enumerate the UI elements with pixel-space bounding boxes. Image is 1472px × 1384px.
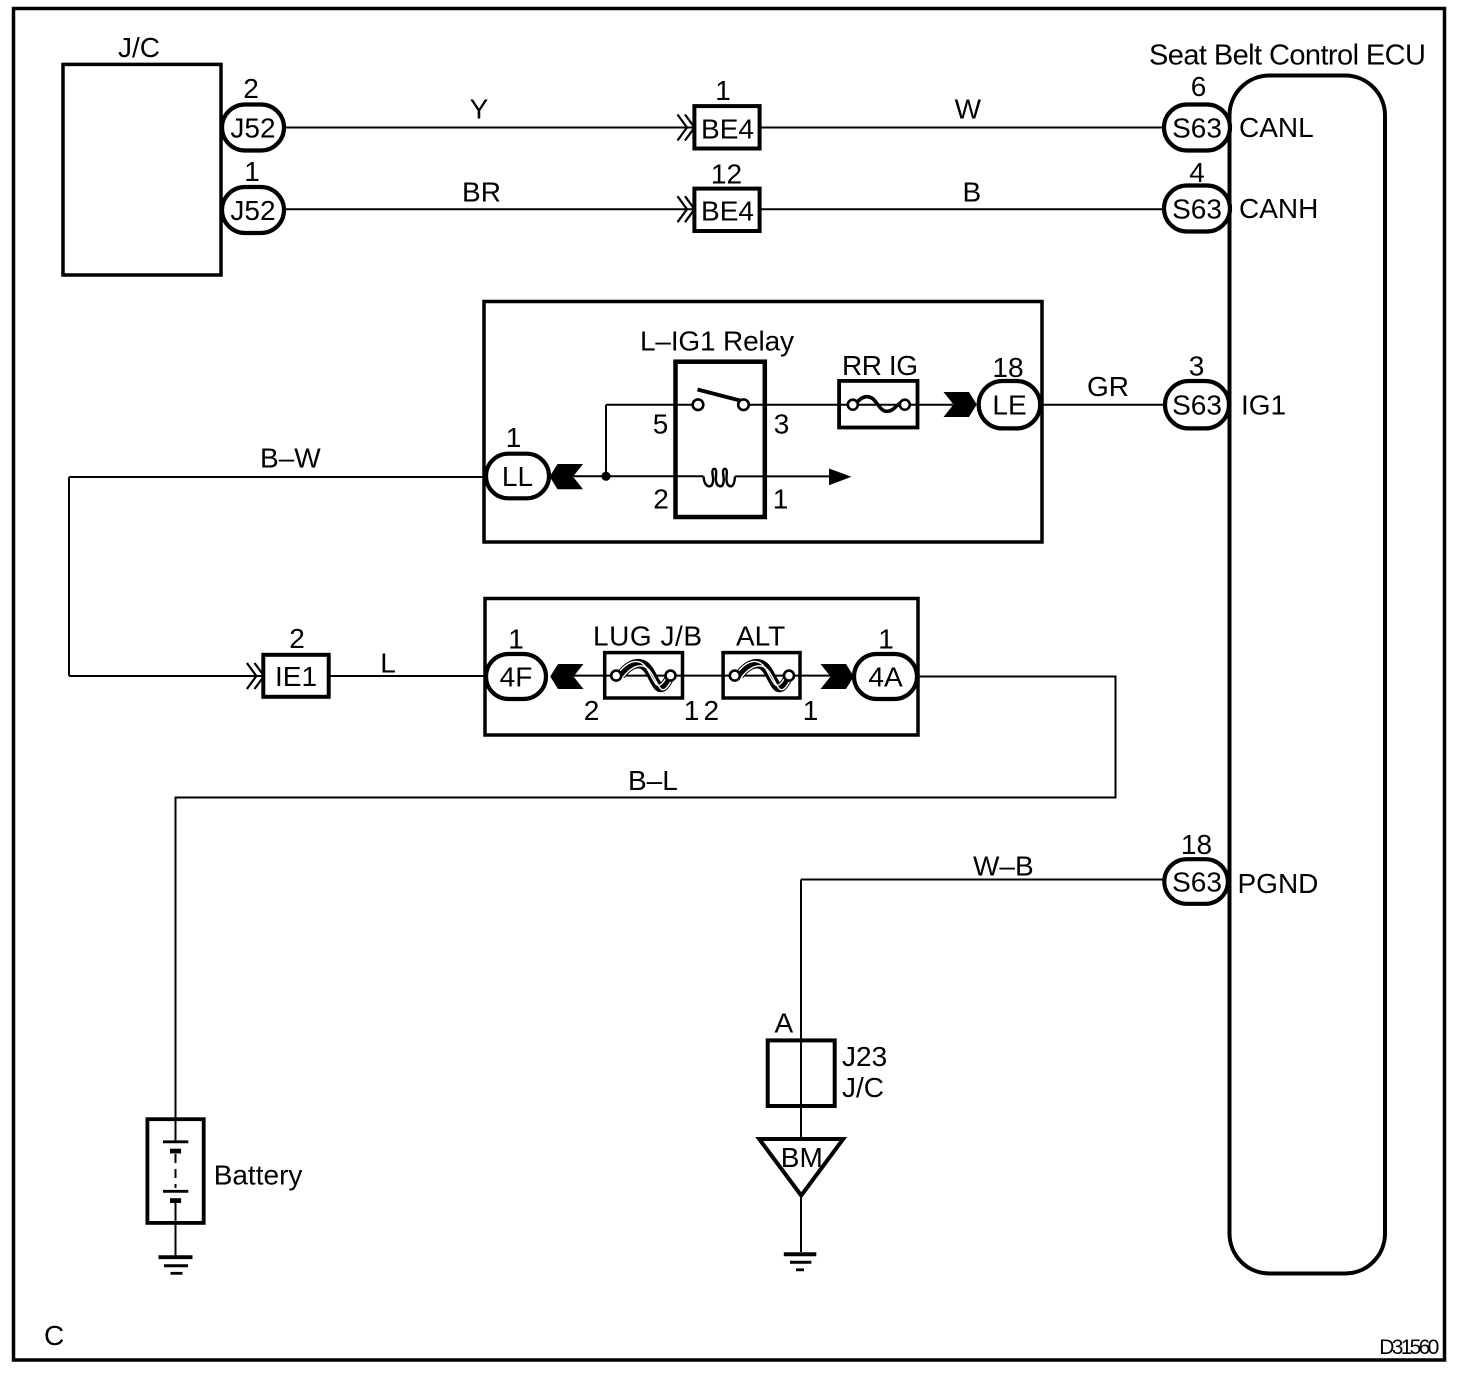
svg-text:IE1: IE1 [275,661,317,692]
svg-text:J/C: J/C [118,32,160,63]
svg-text:BM: BM [781,1142,823,1173]
svg-text:3: 3 [1189,351,1205,382]
svg-text:CANH: CANH [1239,193,1318,224]
svg-text:5: 5 [653,409,669,440]
svg-text:4F: 4F [500,662,533,693]
svg-text:4A: 4A [868,662,903,693]
svg-text:3: 3 [774,409,790,440]
svg-text:CANL: CANL [1239,112,1314,143]
svg-text:S63: S63 [1172,194,1222,225]
svg-text:J52: J52 [230,195,275,226]
svg-text:1: 1 [684,695,700,726]
svg-text:D31560: D31560 [1379,1336,1439,1359]
svg-text:Seat Belt Control ECU: Seat Belt Control ECU [1149,40,1426,72]
svg-text:6: 6 [1191,71,1207,102]
svg-text:18: 18 [992,352,1023,383]
svg-text:C: C [44,1320,64,1351]
svg-text:1: 1 [773,484,789,515]
svg-text:PGND: PGND [1238,868,1319,899]
svg-text:1: 1 [878,624,894,655]
svg-text:LUG J/B: LUG J/B [593,621,702,652]
svg-text:B–L: B–L [628,765,678,796]
svg-text:L: L [380,648,396,679]
svg-text:J52: J52 [230,113,275,144]
svg-text:S63: S63 [1172,390,1222,421]
svg-text:W–B: W–B [973,851,1034,882]
svg-text:IG1: IG1 [1241,390,1286,421]
svg-text:RR IG: RR IG [842,350,918,381]
svg-text:ALT: ALT [736,621,785,652]
svg-text:GR: GR [1087,371,1129,402]
svg-text:A: A [774,1008,793,1039]
svg-text:S63: S63 [1172,113,1222,144]
svg-text:18: 18 [1181,829,1212,860]
svg-text:W: W [955,94,982,125]
svg-text:S63: S63 [1172,867,1222,898]
svg-text:1: 1 [506,422,522,453]
svg-text:2: 2 [653,484,669,515]
svg-text:2: 2 [704,695,720,726]
svg-text:B: B [963,176,982,207]
svg-text:1: 1 [244,156,260,187]
svg-text:BE4: BE4 [701,114,754,145]
svg-text:J23: J23 [842,1041,887,1072]
svg-text:2: 2 [243,73,259,104]
svg-text:LL: LL [502,461,533,492]
svg-text:2: 2 [289,623,305,654]
svg-text:12: 12 [711,159,742,190]
svg-text:2: 2 [584,695,600,726]
svg-text:BR: BR [462,176,501,207]
svg-text:J/C: J/C [842,1072,884,1103]
svg-text:1: 1 [508,624,524,655]
svg-text:LE: LE [992,390,1026,421]
svg-text:4: 4 [1189,157,1205,188]
svg-text:1: 1 [803,695,819,726]
svg-text:1: 1 [715,75,731,106]
svg-text:Y: Y [470,94,489,125]
svg-text:BE4: BE4 [701,196,754,227]
svg-text:B–W: B–W [260,443,321,474]
svg-text:Battery: Battery [214,1160,303,1191]
svg-text:L–IG1 Relay: L–IG1 Relay [640,326,794,357]
